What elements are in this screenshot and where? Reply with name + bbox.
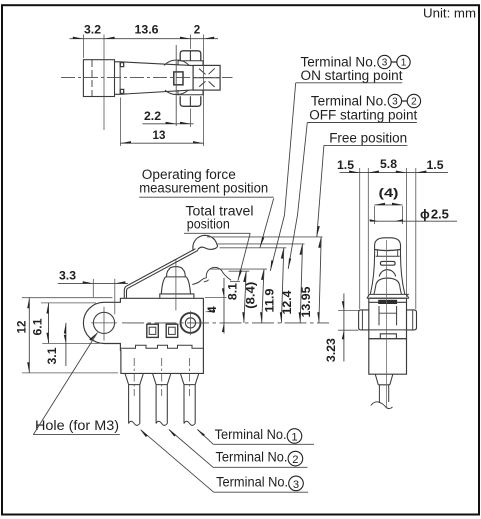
leader T2: [169, 430, 213, 468]
level line 13.95: [207, 236, 323, 238]
terminal 3 end curl: [184, 421, 195, 425]
terminal 1 centerline: [133, 358, 135, 396]
extension line inner left: [367, 168, 369, 297]
circled 1 (a): [397, 55, 410, 68]
lever taper bottom edge: [115, 90, 194, 94]
(4) extension left: [373, 206, 375, 224]
dim line 8.4: [262, 269, 264, 323]
extension line outer right: [415, 168, 417, 309]
dim line 13.95: [319, 237, 321, 323]
bottom tab divider: [189, 96, 191, 106]
hole cross horizontal: [91, 322, 117, 324]
neck: [375, 374, 393, 384]
leader ON starting point: [270, 83, 295, 271]
arrow (4) right: [392, 203, 403, 205]
hidden line (dashed) in lever end: [91, 60, 93, 97]
spring clip bottom: [120, 89, 123, 93]
plunger block: [193, 65, 220, 90]
arrow 4 bottom (outside): [222, 323, 224, 332]
dim line 8.1: [244, 271, 246, 323]
arrow 8.1 bottom: [242, 312, 244, 323]
dim 3.3 right extension: [114, 279, 116, 315]
underline T3: [214, 491, 308, 493]
right tab inner line: [412, 310, 414, 330]
small arrow at body edge: [204, 310, 215, 312]
top tab shoulder: [178, 61, 203, 66]
extension line 3.2/13.6 shared: [103, 35, 105, 131]
level line 12.4: [218, 243, 305, 245]
underline T1: [213, 443, 314, 445]
(4) extension right: [402, 206, 404, 224]
arrow 3.23 bottom (outside): [342, 330, 344, 339]
arrow 2.2 right: [180, 122, 191, 124]
dim (4) line: [374, 204, 402, 206]
tip lower edge: [376, 255, 400, 257]
dim line 11.9: [281, 248, 283, 323]
leader Hole arrowhead: [89, 333, 97, 341]
wire lead: [379, 385, 388, 402]
body (front) upper section: [369, 302, 407, 338]
dim line 13: [120, 142, 203, 144]
svg-text:Terminal No.: Terminal No.: [216, 474, 288, 490]
dim 3.23 top extension: [338, 309, 359, 311]
svg-text:2: 2: [194, 24, 200, 37]
body (front) lower section: [369, 339, 407, 375]
arrow 12 bottom: [27, 362, 29, 373]
leader OFF arrowhead: [288, 258, 291, 269]
arrow 2.2 left: [166, 122, 177, 124]
circled 3 (a): [378, 55, 391, 68]
extension line 2 left: [190, 35, 192, 50]
plunger base plinth: [160, 294, 194, 298]
lever tip curl (free): [193, 235, 218, 250]
leader Free arrowhead: [317, 226, 320, 237]
right tab (front): [407, 310, 417, 330]
arrow 3.3 right: [115, 281, 126, 283]
extension line outer left: [359, 168, 361, 309]
channel bottom: [379, 312, 397, 314]
svg-text:11.9: 11.9: [263, 288, 276, 313]
leader ON arrowhead: [270, 260, 273, 271]
svg-text:13: 13: [153, 129, 166, 142]
dim line 3.1: [65, 323, 67, 366]
lever bend vertical: [119, 62, 121, 95]
channel verticals: [379, 306, 397, 325]
terminal 2 end curl: [156, 421, 167, 425]
svg-text:Free position: Free position: [329, 131, 407, 147]
arrow 4 top (outside): [222, 288, 224, 297]
front view centerline: [386, 240, 388, 408]
mid horizontal line: [369, 329, 407, 331]
bell sides: [374, 286, 402, 295]
left tab inner line: [361, 310, 363, 330]
arrow 11.9 bottom: [280, 312, 282, 323]
leader total travel: [238, 233, 250, 280]
hinge hole rect: [174, 72, 183, 85]
tip inner verticals: [377, 250, 397, 256]
extension line 13 left: [119, 98, 121, 147]
hole cross vertical: [103, 307, 105, 341]
underline ON: [296, 82, 403, 84]
leader OFF starting point: [288, 123, 307, 269]
arrow 12 top: [27, 298, 29, 309]
plunger block mid line: [193, 77, 220, 79]
extension line 3.2 left: [82, 35, 84, 59]
svg-text:OFF starting point: OFF starting point: [309, 108, 417, 124]
underline total travel: [184, 232, 250, 234]
plunger hole dark: [378, 300, 397, 304]
top tab (rounded): [180, 51, 201, 61]
arrow 5.8 right: [396, 171, 407, 173]
bottom tab (rounded): [180, 96, 201, 106]
X mark strokes: [199, 68, 215, 87]
svg-text:5.8: 5.8: [380, 158, 398, 171]
phi2.5 reference line: [370, 220, 457, 222]
arrow 3.23 top (outside): [342, 301, 344, 310]
arrow at 104: [104, 37, 115, 39]
svg-text:12.4: 12.4: [281, 290, 294, 315]
housing sides (front): [370, 250, 405, 295]
arrow 1.5 left: [349, 171, 360, 173]
level line 8.1: [229, 270, 250, 272]
lever tip capsule bottom: [375, 250, 401, 251]
svg-text:12: 12: [16, 321, 29, 334]
leader T3: [141, 430, 214, 492]
terminal window 2 inner: [169, 327, 176, 334]
terminal window 2: [166, 324, 178, 337]
leader measurement arrowhead: [260, 237, 264, 248]
svg-text:2: 2: [411, 97, 417, 108]
arrow 13.6 right / 2 left: [180, 37, 191, 39]
base centerline (hole center extended): [122, 322, 329, 324]
lever arm (free position): [126, 249, 198, 289]
vertical centerline through hinge: [175, 45, 177, 126]
dim 12 top extension: [22, 297, 112, 299]
dim 3.23 bottom extension: [338, 329, 359, 331]
extension line 2.2 right: [190, 109, 192, 128]
arrow 1.5 right: [416, 171, 427, 173]
underline T2: [213, 466, 307, 468]
arrow 13.95 top: [318, 237, 321, 248]
plunger bell waist line: [165, 276, 186, 278]
pressed tip stub line: [230, 280, 240, 282]
arrow 11.9 top: [281, 248, 284, 259]
terminal 1: [125, 373, 143, 423]
pressed lever squiggle left: [192, 278, 206, 285]
arrow 13 left: [120, 141, 131, 143]
terminal window 1: [147, 324, 159, 337]
pressed lever inner squiggle: [204, 280, 209, 282]
svg-text:3.1: 3.1: [46, 347, 59, 365]
dim 12 bottom extension: [22, 372, 118, 374]
top dim line 1.5/5.8/1.5: [340, 172, 449, 174]
dim 6.1/3.1 shared extension: [42, 342, 100, 344]
svg-text:13.6: 13.6: [135, 24, 160, 37]
svg-text:2: 2: [292, 454, 298, 466]
arrow phi2.5 left: [370, 219, 379, 221]
lever flat end (top view): [83, 60, 114, 97]
svg-text:8.1: 8.1: [227, 283, 240, 301]
svg-text:3.3: 3.3: [59, 270, 77, 283]
dim line 3.23: [343, 294, 345, 362]
arrow 3.1 top: [64, 323, 66, 334]
svg-text:Terminal No.: Terminal No.: [216, 450, 288, 466]
underline measurement: [139, 196, 274, 198]
tip slot bar: [380, 261, 395, 265]
arrow (4) left: [374, 203, 385, 205]
collar step2: [367, 294, 409, 298]
boss outer circle: [181, 313, 201, 333]
plunger dome (beehive): [167, 267, 186, 277]
pressed lever tip curl (total travel): [206, 267, 231, 280]
bell dome (front): [376, 278, 400, 286]
top dimension line: [70, 38, 219, 40]
svg-text:Terminal No.: Terminal No.: [215, 427, 287, 443]
dim line 4: [223, 278, 225, 334]
leader Hole: [33, 333, 97, 435]
svg-text:position: position: [187, 217, 230, 233]
svg-text:13.95: 13.95: [300, 286, 313, 318]
terminal 3 centerline: [189, 358, 191, 396]
dim 6.1 top extension: [41, 302, 96, 304]
svg-text:1: 1: [291, 432, 297, 444]
lever taper top edge: [115, 62, 194, 66]
dash b: [402, 100, 408, 102]
dim line 6.1: [48, 303, 50, 344]
terminal 2: [153, 373, 171, 423]
left tab (front): [359, 310, 369, 330]
arrow 5.8 left: [368, 171, 379, 173]
body top level line (for dim 4): [205, 297, 227, 299]
dash a: [391, 61, 397, 63]
lever pivot post: [124, 286, 127, 298]
circled 2: [288, 451, 303, 466]
leader T1 arrowhead: [197, 429, 205, 436]
terminal window 1 inner: [149, 327, 156, 334]
svg-text:3: 3: [293, 479, 299, 491]
leader T1: [198, 430, 214, 445]
svg-text:3: 3: [392, 97, 398, 108]
arrow 3.2 left: [73, 37, 84, 39]
circled 3 (b): [388, 94, 401, 107]
svg-text:1.5: 1.5: [337, 159, 355, 172]
arrow 12.4 bottom: [299, 312, 301, 323]
svg-text:3.23: 3.23: [325, 338, 338, 363]
arrow 3.1 bottom: [64, 335, 66, 344]
underline Free: [324, 144, 408, 146]
plunger centerline: [175, 259, 177, 311]
circled 1: [287, 429, 302, 444]
level line (8.4): [211, 268, 268, 270]
boss inner circle: [185, 318, 195, 328]
leader T3 arrowhead: [140, 429, 148, 437]
leader measurement position: [260, 198, 274, 247]
lever tip capsule (front): [375, 238, 401, 250]
underline OFF: [307, 122, 417, 124]
arrow 3.3 left: [83, 281, 94, 283]
svg-text:(4): (4): [379, 187, 399, 200]
lower window (front): [380, 334, 396, 339]
top tab divider: [189, 51, 191, 61]
extension line inner right: [405, 168, 407, 297]
dim line 12: [28, 298, 30, 373]
circled 2 (b): [407, 94, 420, 107]
arrow 8.1 top: [243, 271, 246, 282]
arrow 8.4 bottom: [260, 312, 262, 323]
svg-text:3.2: 3.2: [84, 24, 101, 37]
circled 3: [289, 476, 304, 491]
arrow 12.4 top: [300, 244, 303, 255]
terminal 2 centerline: [161, 358, 163, 396]
svg-text:2.2: 2.2: [144, 110, 161, 123]
svg-text:6.1: 6.1: [32, 318, 45, 336]
svg-text:measurement position: measurement position: [139, 180, 268, 196]
extension line right (2 and 13): [203, 35, 205, 147]
arrow phi2.5 right: [395, 219, 404, 221]
plunger bell lower tier: [161, 277, 190, 294]
arrow 6.1 bottom: [46, 333, 48, 344]
body top (front): [369, 298, 407, 302]
dim 3.3 line: [58, 282, 128, 284]
arrow 13.95 bottom: [317, 312, 319, 323]
roller ball (front): [379, 270, 395, 277]
arrow 13 right: [193, 141, 204, 143]
svg-text:1.5: 1.5: [427, 159, 445, 172]
arrow 6.1 top: [46, 303, 48, 314]
body outline with lug: [83, 298, 203, 373]
mounting hole (for M3): [93, 312, 114, 333]
leader T2 arrowhead: [168, 429, 176, 437]
terminal 3: [180, 373, 198, 423]
bottom tab shoulder: [178, 90, 203, 95]
dim line 12.4: [300, 244, 302, 323]
svg-text:Unit: mm: Unit: mm: [423, 6, 476, 21]
arrow 2 right: [204, 37, 215, 39]
svg-text:(8.4): (8.4): [245, 282, 258, 309]
spring clip top: [120, 63, 123, 67]
leader Free position: [317, 145, 324, 236]
wire break squiggle: [371, 402, 393, 409]
terminal 1 end curl: [129, 421, 140, 425]
dim line 2.2: [143, 123, 194, 125]
svg-text:ɸ 2.5: ɸ 2.5: [420, 206, 449, 221]
collar step1: [370, 293, 409, 295]
dim 3.3 left extension: [92, 279, 94, 297]
svg-text:ON starting point: ON starting point: [301, 68, 403, 84]
boss vertical centerline: [190, 311, 192, 335]
level line 11.9: [220, 247, 287, 249]
hinge circle arcs: [164, 60, 189, 95]
svg-text:Hole (for M3): Hole (for M3): [35, 418, 119, 434]
leader total travel arrowhead: [238, 270, 242, 281]
case parting line with notches: [121, 345, 203, 348]
horizontal centerline (top view): [61, 77, 233, 79]
arrow 8.4 top: [261, 269, 264, 280]
underline Hole: [33, 434, 120, 436]
